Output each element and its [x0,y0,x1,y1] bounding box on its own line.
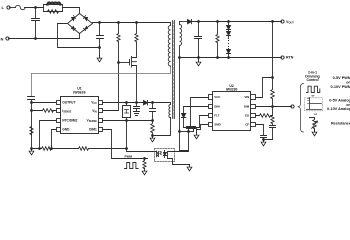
wire aux return [153,118,171,136]
node cap return [179,131,181,133]
wire U2 EO resistor R12 [256,114,273,118]
ground GND2 [29,149,34,155]
bridge diode bottom-left [72,27,75,30]
resistor R2 [117,23,120,63]
wire U2 VCC [191,98,209,128]
LED string D6 [228,49,230,50]
rail bias [184,127,200,129]
node CF gnd [263,139,265,141]
wire VSENSE line [103,120,153,122]
fuse F1 [16,5,26,9]
bridge diode top-right [85,18,88,21]
capacitor C3 [28,97,35,149]
node box column top [126,102,128,104]
opto light arrows [160,151,162,154]
svg-text:0-10V PWM: 0-10V PWM [331,85,350,89]
transformer T1 core [173,21,175,119]
diode D2 [144,101,148,105]
opto phototransistor [164,153,167,156]
brace [298,84,304,133]
capacitor C4 [134,103,140,112]
rail A [32,148,127,150]
transformer T1 primary winding [168,23,170,67]
svg-text:0-10V Analog: 0-10V Analog [327,107,350,111]
resistor R7 aux [151,121,155,136]
wire to OUTPUT pin [32,102,57,104]
IC U2 box [213,92,251,131]
wire VCC line to aux [148,102,171,104]
ground GND5 [142,169,147,175]
analog glyph dashed box [305,98,323,111]
wire gate [119,62,130,64]
node R9 [217,21,219,23]
svg-text:VIN: VIN [244,95,249,99]
wire secondary return down [179,58,181,132]
wire to U2 VIN [256,78,273,98]
node aux cap [152,102,154,104]
svg-text:RTN: RTN [286,56,294,60]
U1 pin squares left [57,101,103,132]
resistor R6 [79,147,89,151]
diode D7 [182,114,186,118]
bridge diode bottom-right [85,27,88,30]
terminal RTN [281,56,284,59]
resistor R9 [216,22,219,58]
svg-text:iW3626: iW3626 [73,91,85,95]
wire top bus [192,21,282,23]
wire L to fuse [10,7,16,9]
svg-text:DIM1: DIM1 [89,127,97,131]
svg-text:VCC: VCC [214,95,221,99]
capacitor C6 [195,22,202,58]
PWM waveform glyph [307,86,320,92]
node bus R2 [118,22,120,24]
node LED string top [228,21,230,23]
terminal DIM input [291,105,294,108]
node gnd bus / C2 [99,47,101,49]
ground GND11 [312,130,317,136]
wire emitter to ground [168,159,190,165]
ground GND8 [196,128,198,133]
node junction C1 bottom [35,38,37,40]
resistor R1 [48,10,59,14]
node sec return RTN [179,57,181,59]
node isense [31,110,33,112]
svg-text:N: N [1,36,4,41]
svg-text:VOUT: VOUT [286,20,294,25]
node RTN LED [228,57,230,59]
wire U2 FLT [200,116,209,128]
node bus R3 [136,22,138,24]
svg-text:DIM: DIM [244,104,250,108]
svg-text:NTC/DIM2: NTC/DIM2 [62,119,77,123]
capacitor C2 [97,23,104,48]
resistor R3 [135,23,138,54]
svg-text:or: or [312,93,316,97]
svg-text:L: L [2,5,5,10]
ground GND4 [150,136,155,142]
svg-text:PWM: PWM [125,155,133,159]
node rail left [31,148,33,150]
node collector join [188,131,190,133]
wire RTN bus [180,57,282,59]
LED string D4 [228,22,230,26]
wire secondary top bus [180,21,188,23]
resistor R5 [42,147,52,151]
wire N to bridge bottom [79,34,81,39]
wire collector up [168,132,189,152]
svg-text:Control: Control [306,78,318,82]
node aux return [152,135,154,137]
node RTN R9 [217,57,219,59]
svg-text:VCC: VCC [91,100,97,105]
ground GND7 secondary [198,58,200,60]
wire VIN column [103,63,119,111]
optocoupler box [155,149,175,162]
ground primary GND1 [99,48,101,56]
node rail drop join [126,148,128,150]
ground bars GND3 [134,112,140,116]
wire GND pin [52,130,57,149]
node output jog [31,102,33,104]
capacitor C10 [261,136,267,140]
shunt regulator box U3 [126,103,128,106]
svg-text:iW3230: iW3230 [226,87,238,91]
ground GND6 [187,165,192,171]
diode D3 output rectifier [188,20,192,24]
U2 pin squares [209,95,256,127]
LR parallel block frame [44,5,63,12]
node rail NTC drop [39,148,41,150]
svg-text:0-5V PWM: 0-5V PWM [333,76,350,80]
opto LED [157,152,159,157]
svg-text:or: or [314,112,318,116]
svg-text:VIN: VIN [92,109,97,114]
terminal N [6,37,9,40]
node bus C2 [99,22,101,24]
resistor R10 [271,78,275,107]
square wave glyph [125,163,139,169]
wire LR block to bridge [63,8,80,14]
svg-text:0-5V Analog: 0-5V Analog [329,98,350,102]
svg-text:SMD: SMD [214,122,220,126]
U2 pin labels [214,95,250,126]
resistor R13 [30,127,33,135]
LED string continuation dots [228,41,230,47]
transformer T1 aux winding [169,103,171,118]
wire DIM1 [103,130,148,159]
transistor Q1 [130,54,137,74]
wire VOUT drop [272,22,274,78]
IC U1 box [61,97,99,134]
terminal L [7,6,10,9]
svg-text:Resistance: Resistance [331,121,350,125]
node cap C6 [198,21,200,23]
U1 pin labels [62,100,97,131]
wire U2 DIM right to terminal [256,106,292,108]
dimming options text [327,76,350,126]
variable resistor R14 [310,118,317,132]
capacitor C5 aux [150,103,156,121]
wire NTC/DIM2 [40,121,57,149]
svg-text:EO: EO [245,114,250,118]
capacitor C9 [264,126,276,140]
node junction C1 top [35,7,37,9]
capacitor C11 [187,127,191,132]
resistor R11 [271,107,274,126]
wire bridge left vertex to gnd bus [58,24,100,48]
ground GND10 [261,140,266,146]
node source / VCC line [136,102,138,104]
resistor R4 isense [32,109,57,113]
rail cap return [180,131,194,133]
wire N line [9,38,80,40]
transformer T1 secondary winding [180,22,182,58]
svg-text:FLT: FLT [214,114,219,118]
wire U2 DIM left [184,107,209,114]
terminal VOUT [281,20,284,23]
node pwm resistor [144,158,146,160]
node vsense drop [126,120,128,122]
svg-text:GND: GND [62,127,70,131]
svg-text:DIM: DIM [214,104,220,108]
node RTN gnd [198,57,200,59]
wire U2 CF [256,125,264,136]
bridge diode top-left [72,18,75,21]
wire fuse to LR block [25,7,44,9]
capacitor C12 [192,127,196,132]
wire U2 SMD [197,125,209,130]
wire Q1 source down [136,74,138,103]
wire secondary return to collector [180,132,189,151]
wire left column down [31,74,33,97]
wire LED input [127,149,157,152]
bridge rectifier BR1 [68,14,93,34]
wire vsense drop [126,121,128,149]
svg-text:CF: CF [245,122,249,126]
analog level glyph [307,98,322,110]
LED string D5 [227,32,231,36]
wire primary bottom to left loop [32,66,171,74]
svg-text:ISENSE: ISENSE [62,109,71,114]
node vout tee [272,77,274,79]
svg-text:VSENSE: VSENSE [87,119,98,124]
node gate [118,62,120,64]
inductor L1 [48,2,61,4]
capacitor C1 [32,8,40,39]
node V_OUT drop [272,21,274,23]
dimming control label [305,71,320,83]
wire VCC line [103,102,144,104]
node rail GND drop [51,148,53,150]
wire DC bus [93,22,171,24]
resistor R8 [143,159,146,169]
node dim divider [272,106,274,108]
svg-text:OUTPUT: OUTPUT [62,100,75,104]
node vsense aux [152,120,154,122]
